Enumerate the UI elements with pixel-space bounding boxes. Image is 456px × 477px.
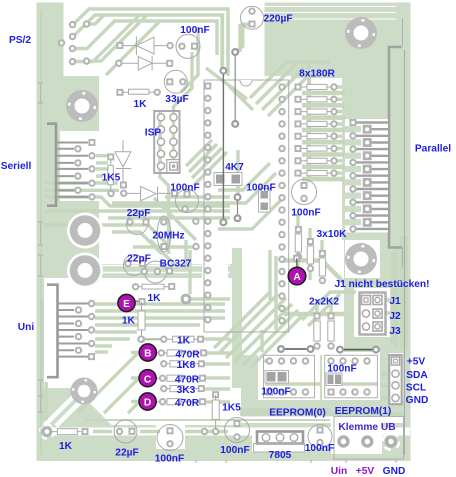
resistor 1K bottom-left bbox=[42, 426, 53, 437]
svg-text:22pF: 22pF bbox=[127, 254, 151, 265]
node C marker bbox=[139, 370, 156, 387]
wire right side verticals J area bbox=[394, 250, 397, 348]
wire diag array feed 4 bbox=[268, 72, 312, 116]
capacitor 22pF 1 bbox=[127, 214, 148, 235]
PCB board pour bbox=[37, 3, 411, 462]
diode D3 vertical bbox=[115, 140, 131, 184]
jumper block J1-J3 bbox=[360, 293, 386, 335]
crystal 20MHz bbox=[157, 216, 171, 252]
svg-text:3x10K: 3x10K bbox=[316, 229, 347, 240]
wire A to jumper diagonals bbox=[302, 292, 356, 320]
wire ISP verticals bbox=[160, 112, 169, 254]
wire 220uF elbow bbox=[238, 25, 252, 52]
svg-text:20MHz: 20MHz bbox=[152, 231, 184, 242]
svg-text:100nF: 100nF bbox=[305, 443, 334, 454]
diode D4 horizontal bbox=[127, 187, 171, 202]
svg-text:J1: J1 bbox=[389, 296, 401, 307]
svg-text:1K8: 1K8 bbox=[177, 360, 196, 371]
wire isp to crystal diagonals bbox=[154, 198, 196, 240]
copper-free zone PS/2 area bbox=[64, 3, 265, 77]
copper-free zone 1K5 bottom bbox=[205, 388, 241, 425]
uni pads bbox=[88, 300, 95, 307]
svg-text:+5V: +5V bbox=[407, 357, 426, 368]
resistor 1K8 bbox=[170, 361, 184, 367]
jumper wire 2 bbox=[234, 52, 236, 124]
wire vertical 4K7 bbox=[236, 150, 239, 196]
resistor 470R (D) bbox=[167, 399, 181, 405]
svg-text:C: C bbox=[144, 374, 152, 385]
svg-text:100nF: 100nF bbox=[155, 454, 184, 465]
resistor array 8x180R bbox=[295, 83, 338, 177]
wire mid-left horizontal bus bbox=[44, 181, 118, 184]
svg-text:22µF: 22µF bbox=[115, 448, 138, 459]
wire vertical center 3 bbox=[220, 17, 223, 70]
jumper wire 3 bbox=[237, 197, 239, 218]
copper-free zone EEPROM(1) bbox=[322, 352, 380, 400]
wire diag array feed 2 bbox=[256, 64, 296, 104]
wire A column verticals bbox=[268, 250, 271, 300]
capacitor 100nF SMD mid bbox=[259, 189, 271, 213]
wire left edge verticals bbox=[40, 300, 43, 420]
copper-free zone resistor array bbox=[245, 78, 342, 248]
parallel rows bbox=[345, 119, 388, 232]
svg-text:PS/2: PS/2 bbox=[9, 35, 31, 46]
wire isp-socket diagonals bbox=[186, 140, 212, 166]
capacitor 100nF bottom bbox=[157, 425, 183, 451]
capacitor 100nF at 7805 left bbox=[225, 418, 250, 443]
svg-text:Uin: Uin bbox=[331, 466, 347, 477]
mounting hole top-left bbox=[66, 90, 98, 122]
MCU socket outline bbox=[204, 80, 289, 332]
wire array vertical feed bbox=[307, 60, 311, 182]
svg-text:100nF: 100nF bbox=[261, 386, 290, 397]
svg-text:100nF: 100nF bbox=[220, 445, 249, 456]
svg-text:1K: 1K bbox=[147, 293, 161, 304]
resistor 4K7 SMD bbox=[214, 173, 242, 186]
wire 20MHz area diagonals bbox=[150, 240, 176, 266]
resistor 1K5 vertical bbox=[212, 391, 219, 398]
wire A-area bands bbox=[284, 261, 344, 283]
svg-text:7805: 7805 bbox=[269, 450, 292, 461]
svg-text:100nF: 100nF bbox=[170, 183, 199, 194]
copper-free blob bottom caps bbox=[156, 425, 185, 449]
capacitor 22pF 2 bbox=[124, 255, 145, 276]
resistor 1K vertical (E) bbox=[133, 300, 139, 302]
svg-text:J1 nicht bestücken!: J1 nicht bestücken! bbox=[334, 279, 429, 290]
capacitor 33uF bbox=[164, 70, 187, 93]
mounting hole mid-right bbox=[345, 243, 377, 275]
svg-text:GND: GND bbox=[406, 395, 429, 406]
pour wedge bottom-left bbox=[37, 388, 114, 427]
wire A-region diagonal fan bbox=[226, 298, 286, 358]
I2C header bbox=[389, 355, 402, 404]
wire socket left elbows bbox=[218, 163, 270, 190]
capacitor 220uF bbox=[241, 6, 264, 29]
wire bottom-left diagonals bbox=[78, 353, 138, 413]
wire E pad feed bbox=[191, 297, 230, 300]
svg-text:100nF: 100nF bbox=[246, 183, 275, 194]
wire vertical center 4 bbox=[226, 17, 229, 76]
node E marker bbox=[118, 294, 135, 311]
svg-text:1K: 1K bbox=[133, 99, 147, 110]
wire array inter-row bands bbox=[302, 93, 345, 179]
svg-text:BC327: BC327 bbox=[160, 259, 192, 270]
svg-text:Seriell: Seriell bbox=[1, 161, 32, 172]
wire socket diag 2 bbox=[229, 86, 253, 110]
svg-text:1K5: 1K5 bbox=[222, 402, 241, 413]
wire bottom lane trace bbox=[93, 430, 112, 433]
jumper wire 1 bbox=[222, 71, 224, 223]
mounting hole bottom-left bbox=[71, 378, 98, 405]
wire vertical center 2 bbox=[181, 27, 198, 92]
svg-text:D: D bbox=[144, 398, 151, 409]
copper-free zone MCU socket bbox=[198, 76, 258, 248]
wire PS/2 diag 5 bbox=[87, 15, 147, 61]
diode D4 pad bbox=[171, 190, 178, 197]
svg-text:Parallel: Parallel bbox=[415, 144, 451, 155]
svg-text:A: A bbox=[293, 272, 301, 283]
ISP header bbox=[154, 111, 179, 173]
seriell connector body bbox=[47, 124, 56, 206]
board edge ticks bbox=[38, 10, 405, 463]
wire top bus 1 bbox=[73, 9, 228, 60]
svg-text:EEPROM(1): EEPROM(1) bbox=[335, 406, 392, 417]
diode D2 bbox=[122, 56, 166, 71]
copper-free zone A / 2x2K2 bbox=[242, 240, 344, 355]
copper-free zone EEPROM(0) bbox=[258, 352, 320, 400]
svg-text:220µF: 220µF bbox=[263, 14, 292, 25]
svg-text:EEPROM(0): EEPROM(0) bbox=[269, 407, 326, 418]
node A pad bbox=[293, 255, 300, 262]
wire 3x10K verticals bbox=[296, 214, 299, 236]
lane pad bbox=[201, 428, 208, 435]
copper-free zone seriell pads bbox=[60, 131, 100, 201]
copper-free zone bottom-left big bbox=[44, 278, 232, 425]
resistor 3K3 bbox=[170, 386, 184, 392]
capacitor 100nF top bbox=[176, 34, 200, 58]
copper-free lane bottom 2 bbox=[42, 428, 410, 436]
node D marker bbox=[139, 393, 156, 410]
resistor 1K top bbox=[129, 89, 150, 94]
svg-text:B: B bbox=[144, 349, 151, 360]
copper-free zone I2C header bbox=[389, 353, 403, 400]
copper-free zone mount hole top-right area bbox=[345, 240, 380, 278]
wire vertical 220uF down bbox=[238, 24, 241, 52]
uni connector body bbox=[47, 285, 58, 378]
wire in bottom lane bbox=[85, 419, 330, 421]
wire bottom-left horizontal bus bbox=[95, 302, 225, 305]
wire top bus 3 bbox=[73, 21, 217, 55]
driver IC pad column bbox=[278, 83, 285, 90]
svg-text:E: E bbox=[123, 299, 130, 310]
wire diag array feed 3 bbox=[262, 68, 304, 110]
svg-text:4K7: 4K7 bbox=[225, 162, 244, 173]
wire 2x2K2 verticals bbox=[315, 300, 318, 316]
jumper wire 4 bbox=[281, 348, 311, 350]
diode D3 pads bbox=[120, 182, 127, 189]
resistor 1K5 vertical left bbox=[107, 153, 114, 160]
mounting hole top-right bbox=[345, 17, 377, 49]
node A marker bbox=[288, 267, 306, 285]
svg-text:J2: J2 bbox=[389, 311, 401, 322]
clearance lines top right pour bbox=[264, 6, 396, 8]
resistor 3x10K bbox=[295, 234, 301, 252]
MCU socket left pads bbox=[204, 83, 211, 90]
svg-text:3K3: 3K3 bbox=[177, 385, 196, 396]
diode D2 pads bbox=[115, 60, 122, 67]
wire socket diag 1 bbox=[206, 68, 247, 99]
EEPROM(0) socket bbox=[264, 355, 315, 398]
copper-free zone jumper J1-J3 bbox=[354, 288, 392, 337]
wire diag array feed 1 bbox=[250, 62, 330, 98]
regulator 7805 bbox=[257, 432, 303, 444]
svg-text:J3: J3 bbox=[389, 326, 401, 337]
wire right vertical bundle bbox=[390, 252, 393, 346]
svg-text:1K: 1K bbox=[122, 315, 136, 326]
svg-text:Klemme UB: Klemme UB bbox=[338, 422, 395, 433]
terminal Klemme UB bbox=[334, 417, 404, 460]
EEPROM(1) socket bbox=[325, 355, 378, 398]
wire PS/2 diag 6 bbox=[106, 21, 160, 75]
parallel connector body bbox=[389, 47, 402, 248]
svg-text:GND: GND bbox=[383, 466, 406, 477]
seriell pads bbox=[88, 139, 95, 146]
copper-free lane bottom 1 bbox=[68, 417, 404, 424]
diode D1 pads bbox=[116, 42, 123, 49]
node B marker bbox=[139, 344, 156, 361]
svg-text:1K5: 1K5 bbox=[102, 172, 121, 183]
resistor 1K (B row) bbox=[173, 336, 195, 342]
capacitor 100nF at 7805 right bbox=[308, 425, 332, 449]
wire seriell fanout bbox=[96, 154, 108, 157]
wire vertical bundle center top bbox=[174, 52, 193, 160]
transistor BC327 bbox=[145, 261, 167, 283]
svg-text:SCL: SCL bbox=[406, 382, 426, 393]
wire top bus 2 bbox=[73, 15, 223, 66]
svg-text:Uni: Uni bbox=[18, 322, 35, 333]
wire PS/2 diag 4 bbox=[73, 16, 139, 62]
wire EEPROM area bbox=[265, 382, 320, 385]
wire eeprom bottom bus bbox=[240, 412, 404, 415]
svg-text:1K: 1K bbox=[177, 336, 191, 347]
svg-text:8x180R: 8x180R bbox=[299, 69, 335, 80]
copper-free zone middle-left big bbox=[99, 74, 232, 264]
svg-text:22pF: 22pF bbox=[127, 208, 151, 219]
copper-free zone Klemme UB terminal bbox=[331, 417, 382, 454]
wire jumper j area bbox=[386, 300, 396, 313]
PS/2 connector pads bbox=[69, 21, 76, 28]
resistor 1K (E) bbox=[142, 284, 164, 289]
wire B/C/D right feeds bbox=[204, 337, 230, 340]
capacitor 100nF mid-left bbox=[176, 190, 199, 213]
svg-text:2x2K2: 2x2K2 bbox=[309, 297, 339, 308]
diode D1 bbox=[123, 37, 167, 56]
svg-text:33µF: 33µF bbox=[165, 94, 188, 105]
uni leads bbox=[58, 304, 89, 357]
clearance lanes in wedge bbox=[44, 388, 82, 426]
svg-text:ISP: ISP bbox=[145, 128, 162, 139]
resistor 470R (B) bbox=[167, 350, 181, 356]
resistor 2x2K2 bbox=[314, 321, 320, 341]
resistor 470R (C) bbox=[167, 375, 181, 381]
svg-text:+5V: +5V bbox=[356, 466, 375, 477]
via left 1 bbox=[67, 213, 103, 249]
wire crystal band bbox=[133, 245, 196, 248]
svg-text:SDA: SDA bbox=[406, 370, 428, 381]
svg-text:100nF: 100nF bbox=[291, 208, 320, 219]
svg-text:470R: 470R bbox=[175, 374, 200, 385]
capacitor 100nF mid-right bbox=[291, 179, 316, 204]
svg-text:100nF: 100nF bbox=[327, 363, 356, 374]
svg-text:1K: 1K bbox=[59, 441, 73, 452]
svg-text:470R: 470R bbox=[175, 398, 200, 409]
wire array right stubs bbox=[336, 87, 342, 173]
jumper wire 5 bbox=[340, 349, 376, 351]
svg-text:100nF: 100nF bbox=[180, 25, 209, 36]
via left 2 bbox=[67, 253, 103, 289]
gap lines in BC327 band bbox=[100, 265, 230, 267]
svg-text:470R: 470R bbox=[175, 349, 200, 360]
node pad E target bbox=[181, 294, 192, 305]
capacitor 22uF bottom bbox=[114, 420, 137, 443]
wire I2C stubs bbox=[381, 374, 389, 398]
seriell leads bbox=[56, 143, 88, 197]
wire PS/2 short bbox=[87, 15, 104, 24]
